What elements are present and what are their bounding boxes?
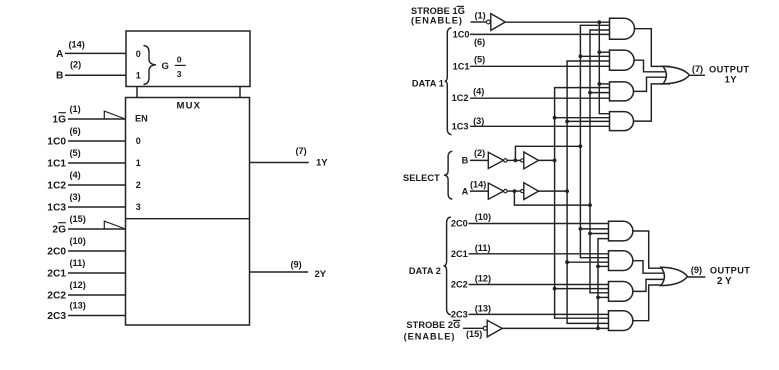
svg-text:EN: EN	[135, 114, 148, 124]
wire gate 1C3 to OR 1Y	[633, 84, 670, 121]
junction A-bar gate 2C0	[588, 232, 592, 236]
junction A gate 2C1	[565, 260, 569, 264]
junction A inverter tap	[513, 189, 517, 193]
svg-text:G: G	[162, 61, 169, 72]
svg-text:1Y: 1Y	[725, 74, 738, 85]
B-bar stub to gate 2C0	[580, 228, 609, 230]
svg-text:(5): (5)	[70, 148, 81, 158]
wire gate 2C1 to OR 2Y	[632, 261, 668, 274]
AND gate 1C0	[610, 18, 635, 39]
output wire 2Y pin 9	[687, 276, 705, 278]
bus A complement	[590, 30, 611, 293]
svg-text:2C1: 2C1	[47, 268, 66, 279]
svg-text:1: 1	[136, 71, 141, 81]
A-bar stub to gate 1C2	[590, 92, 611, 94]
svg-text:(ENABLE): (ENABLE)	[411, 15, 463, 25]
svg-text:1C2: 1C2	[452, 93, 469, 103]
input 2C1 pin 11 wire	[451, 243, 610, 259]
output 1Y pin 7	[250, 146, 329, 169]
svg-text:(15): (15)	[466, 329, 482, 339]
input 2G pin (15)	[52, 214, 125, 235]
svg-text:(11): (11)	[70, 258, 86, 268]
input 2C2 pin 12 wire	[451, 274, 610, 290]
junction strobe2 bus	[596, 326, 600, 330]
strobe 1 stub to gate 1C1	[599, 51, 610, 53]
junction B gate 1C3	[553, 116, 557, 120]
svg-text:(2): (2)	[70, 60, 81, 70]
wire gate 1C1 to OR 1Y	[633, 60, 670, 72]
input 1C3 pin 3 wire	[452, 116, 611, 132]
svg-text:(2): (2)	[474, 148, 485, 158]
svg-text:(15): (15)	[70, 214, 86, 224]
input 1C1 pin 5 wire	[453, 55, 611, 72]
svg-text:1G: 1G	[52, 114, 66, 125]
input 2C1 pin (11)	[47, 258, 125, 279]
input 1C3 pin (3)	[47, 192, 125, 213]
AND gate 1C2	[610, 82, 634, 101]
svg-text:(12): (12)	[475, 274, 491, 284]
svg-text:(14): (14)	[69, 40, 85, 50]
input 2C3 pin (13)	[47, 301, 125, 322]
connector tab left	[136, 87, 138, 98]
svg-text:3: 3	[136, 202, 141, 212]
label (7) OUTPUT 1Y	[692, 64, 750, 85]
svg-text:2: 2	[136, 180, 141, 190]
input B pin 2	[56, 60, 126, 82]
svg-text:2C0: 2C0	[451, 218, 468, 228]
select group brace	[144, 46, 157, 85]
svg-text:2Y: 2Y	[717, 276, 734, 287]
strobe 1 line to AND gates	[505, 21, 610, 23]
svg-text:(9): (9)	[691, 265, 702, 275]
svg-text:(7): (7)	[296, 146, 307, 156]
svg-text:(5): (5)	[474, 55, 485, 65]
A buffered line to bus	[539, 190, 568, 192]
AND gate 1C1	[610, 50, 635, 70]
B stub to gate 1C3	[555, 117, 611, 119]
wire gate 2C3 to OR 2Y	[632, 285, 668, 321]
output 2Y pin 9	[250, 260, 327, 280]
B-bar stub to gate 1C1	[580, 55, 610, 57]
qualifier G 0/3	[162, 54, 186, 79]
svg-text:2Y: 2Y	[315, 269, 327, 280]
svg-text:1C0: 1C0	[47, 136, 66, 147]
svg-text:0: 0	[136, 49, 141, 59]
inverter B first	[488, 152, 503, 168]
junction A gate 1C3	[565, 120, 569, 124]
svg-text:(12): (12)	[70, 280, 86, 290]
svg-text:(4): (4)	[70, 170, 81, 180]
strobe 2 stub to gate 2C2	[598, 296, 610, 298]
label STROBE 2G (ENABLE)	[404, 320, 483, 342]
label (9) OUTPUT 2Y	[691, 265, 751, 287]
svg-text:0: 0	[177, 54, 182, 64]
svg-text:B: B	[462, 156, 469, 166]
input 1C0 pin 6 wire	[453, 29, 611, 47]
input 1C1 pin (5)	[47, 148, 125, 169]
svg-text:3: 3	[177, 69, 182, 79]
junction strobe1 gate 1C1	[597, 50, 601, 54]
strobe 2 stub to gate 2C1	[598, 265, 610, 267]
input 2C3 pin 13 wire	[451, 303, 610, 319]
B stub to gate 2C2	[555, 288, 610, 290]
svg-text:(7): (7)	[692, 64, 703, 74]
junction A buffered	[565, 189, 569, 193]
svg-text:1C3: 1C3	[452, 122, 469, 132]
input 1G pin (1)	[52, 104, 125, 125]
inverter A first	[488, 183, 503, 199]
svg-text:(10): (10)	[70, 236, 86, 246]
label STROBE 1G (ENABLE)	[411, 6, 486, 25]
input 1C2 pin 4 wire	[452, 87, 611, 103]
svg-text:MUX: MUX	[177, 101, 202, 112]
svg-text:2C3: 2C3	[47, 311, 66, 322]
junction strobe2 gate 2C2	[596, 296, 600, 300]
svg-text:(3): (3)	[70, 192, 81, 202]
output wire 1Y pin 7	[689, 74, 705, 76]
OR gate 1Y	[663, 66, 689, 84]
svg-text:(10): (10)	[475, 212, 491, 222]
A-bar stub to gate 2C0	[590, 233, 610, 235]
bus B complement	[580, 25, 610, 257]
svg-text:B: B	[56, 71, 63, 82]
input 2C0 pin 10 wire	[451, 212, 610, 228]
svg-text:(11): (11)	[475, 243, 491, 253]
A stub to gate 2C1	[567, 261, 609, 263]
wire gate 2C2 to OR 2Y	[632, 279, 668, 291]
svg-text:DATA 2: DATA 2	[409, 266, 441, 276]
data 1 group brace	[445, 28, 452, 135]
svg-text:2C1: 2C1	[451, 249, 468, 259]
svg-text:A: A	[462, 186, 469, 196]
AND gate 2C0	[609, 221, 633, 241]
svg-text:1C2: 1C2	[47, 180, 66, 191]
AND gate 2C3	[609, 311, 633, 331]
AND gate 1C3	[610, 112, 634, 131]
wire gate 2C0 to OR 2Y	[632, 231, 668, 268]
junction strobe1 gate 1C2	[597, 82, 601, 86]
inverter B second input bubble	[521, 159, 524, 162]
svg-text:(3): (3)	[473, 116, 484, 126]
svg-text:(13): (13)	[475, 303, 491, 313]
input 1C0 pin (6)	[47, 126, 125, 147]
EN polarity wedge 1G	[104, 111, 125, 119]
svg-text:1C1: 1C1	[47, 158, 66, 169]
svg-text:(6): (6)	[70, 126, 81, 136]
connector tab right	[239, 87, 241, 98]
input A pin 14	[56, 40, 126, 61]
svg-text:1C1: 1C1	[453, 61, 470, 71]
junction strobe1 bus	[597, 20, 601, 24]
svg-text:2C0: 2C0	[47, 246, 66, 257]
svg-text:(9): (9)	[291, 260, 302, 270]
A stub to gate 1C3	[567, 120, 610, 122]
OR gate 2Y	[661, 267, 687, 285]
bus A true	[567, 61, 610, 323]
bus B true	[555, 88, 611, 319]
svg-text:(1): (1)	[475, 10, 486, 20]
svg-text:1C0: 1C0	[453, 29, 470, 39]
junction B-bar gate 1C1	[579, 54, 583, 58]
A-bar tap line	[514, 191, 590, 205]
input B pin 2 wire	[462, 148, 489, 166]
wire gate 1C2 to OR 1Y	[633, 77, 670, 91]
svg-text:2C2: 2C2	[47, 290, 66, 301]
junction B-bar gate 2C0	[579, 227, 583, 231]
svg-text:(14): (14)	[470, 179, 486, 189]
MUX section separator	[126, 218, 250, 220]
select group brace	[444, 151, 452, 199]
svg-text:1Y: 1Y	[316, 158, 328, 169]
B buffered line to bus	[539, 159, 555, 161]
strobe 2 line to AND gates	[502, 327, 609, 329]
input A pin 14 wire	[462, 179, 489, 196]
wire between A inverters	[507, 190, 520, 192]
svg-text:(4): (4)	[473, 87, 484, 97]
B-bar tap line	[515, 146, 580, 160]
strobe 1 stub to gate 1C2	[599, 83, 610, 85]
svg-text:(ENABLE): (ENABLE)	[404, 332, 456, 342]
junction B-bar tap	[579, 144, 583, 148]
wire between B inverters	[507, 159, 520, 161]
AND gate 2C2	[609, 282, 633, 302]
svg-text:(6): (6)	[474, 37, 485, 47]
junction B buffered	[553, 159, 557, 163]
strobe 2 bus	[598, 239, 610, 329]
junction B gate 2C2	[553, 287, 557, 291]
junction A-bar tap	[588, 203, 592, 207]
inverter A second (buffer)	[524, 183, 539, 200]
junction A-bar gate 1C2	[588, 91, 592, 95]
inverter strobe 1	[486, 14, 505, 31]
svg-text:0: 0	[136, 136, 141, 146]
inverter B first output bubble	[504, 159, 507, 162]
inverter strobe 2	[483, 320, 502, 337]
input 2C2 pin (12)	[47, 280, 125, 301]
AND gate 2C1	[609, 251, 633, 271]
svg-text:2G: 2G	[52, 224, 66, 235]
svg-text:SELECT: SELECT	[403, 173, 440, 183]
common control block (top box)	[126, 31, 250, 87]
input 2C0 pin (10)	[47, 236, 125, 257]
strobe 1 bus	[599, 22, 610, 114]
svg-text:2C3: 2C3	[451, 309, 468, 319]
svg-text:1C3: 1C3	[47, 202, 66, 213]
EN polarity wedge 2G	[104, 221, 125, 229]
inverter B second (buffer)	[524, 152, 539, 169]
inverter A first output bubble	[504, 189, 507, 192]
svg-text:STROBE 2G: STROBE 2G	[406, 320, 460, 330]
svg-text:2C2: 2C2	[451, 279, 468, 289]
MUX block outline	[126, 98, 250, 326]
data 2 group brace	[444, 217, 451, 315]
junction strobe2 gate 2C1	[596, 265, 600, 269]
strobe 1 input wire pin 1	[471, 21, 487, 23]
wire gate 1C0 to OR 1Y	[633, 29, 670, 67]
input 1C2 pin (4)	[47, 170, 125, 191]
svg-text:(1): (1)	[70, 104, 81, 114]
inverter A second input bubble	[521, 190, 524, 193]
junction B inverter tap	[514, 159, 518, 163]
svg-text:(13): (13)	[70, 301, 86, 311]
strobe 2 input wire pin 15	[463, 327, 483, 329]
svg-text:1: 1	[136, 158, 141, 168]
svg-text:A: A	[56, 49, 64, 60]
svg-text:DATA 1: DATA 1	[412, 79, 444, 89]
svg-text:OUTPUT: OUTPUT	[710, 265, 750, 275]
